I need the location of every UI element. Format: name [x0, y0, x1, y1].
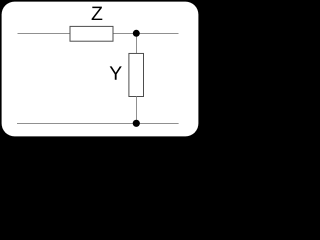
wire bottom: [17, 123, 179, 125]
label Y: [110, 66, 122, 79]
wire top-left: [18, 33, 71, 35]
node dot bottom: [133, 120, 140, 127]
node dot top: [133, 30, 140, 37]
frame background: [0, 0, 200, 138]
impedance Z1 box: [70, 26, 113, 41]
label Z: [92, 7, 103, 20]
inner white panel: [2, 2, 199, 137]
wire vertical upper: [136, 34, 138, 54]
wire vertical lower: [136, 97, 138, 124]
wire top-right: [113, 33, 179, 35]
admittance Y1 box: [129, 53, 144, 96]
